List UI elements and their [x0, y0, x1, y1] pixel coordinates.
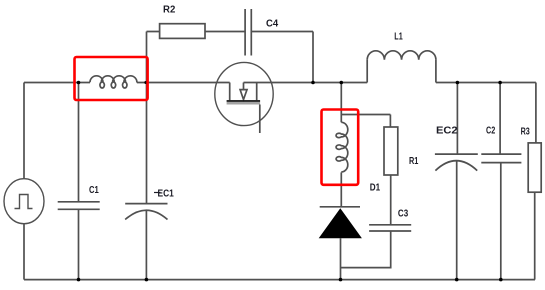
svg-text:L1: L1	[394, 31, 403, 42]
svg-text:C2: C2	[486, 125, 496, 136]
svg-text:EC1: EC1	[158, 188, 175, 199]
svg-text:C4: C4	[266, 19, 279, 30]
svg-text:C3: C3	[398, 208, 409, 219]
svg-text:EC2: EC2	[436, 125, 458, 136]
svg-text:R2: R2	[163, 5, 176, 16]
svg-text:C1: C1	[89, 185, 99, 196]
svg-text:R3: R3	[521, 126, 531, 137]
svg-text:D1: D1	[370, 182, 381, 193]
svg-text:R1: R1	[409, 156, 419, 167]
